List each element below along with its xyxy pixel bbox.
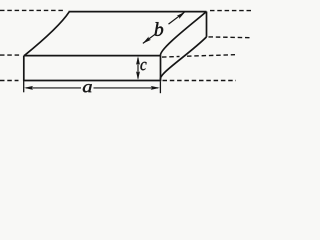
dimension b upper arrowhead	[177, 12, 186, 19]
box front-left vertical edge with dimension extension	[23, 56, 25, 81]
box top-right receding edge	[160, 12, 206, 56]
slab dashed edge mid-left	[0, 54, 20, 56]
slab dashed edge back-bottom right	[209, 36, 252, 39]
slab dashed edge top-right	[210, 10, 251, 12]
slab dashed edge bottom-left	[0, 80, 19, 82]
dimension a shaft left segment	[26, 87, 81, 89]
dimension c top arrowhead	[136, 56, 140, 65]
dimension b shaft upper segment	[169, 12, 185, 24]
dimension a right arrowhead	[151, 86, 160, 90]
box front-top edge	[24, 55, 161, 57]
dimension c bottom arrowhead	[136, 71, 140, 80]
dimension a left extension line	[23, 81, 25, 92]
dimension b label	[155, 22, 164, 36]
box back-top edge	[69, 11, 207, 13]
box back-right vertical edge	[206, 12, 208, 37]
slab dashed edge mid-right segment 2	[187, 55, 235, 57]
box side-bottom receding edge	[160, 37, 206, 80]
dimension a shaft right segment	[94, 87, 159, 89]
box front-bottom edge	[24, 80, 161, 82]
dimension b lower arrowhead	[143, 37, 152, 44]
box front-right vertical edge with dimension extension	[160, 56, 162, 82]
dimension a right extension line	[159, 81, 161, 93]
box top-left receding edge	[24, 12, 69, 56]
dimension b shaft lower segment	[143, 34, 155, 43]
dimension c shaft	[137, 58, 139, 79]
dimension a left arrowhead	[24, 86, 33, 90]
dimension a label	[83, 84, 92, 92]
slab dashed edge top-left	[0, 9, 65, 11]
dimension c label	[141, 62, 147, 70]
slab dashed edge mid-right segment 1	[162, 56, 180, 59]
slab dashed edge bottom-right	[163, 80, 237, 82]
